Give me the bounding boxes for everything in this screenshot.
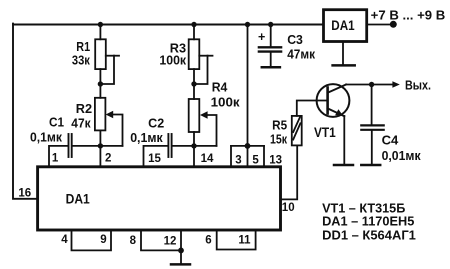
wire: left rail down to pin 16 [13, 24, 37, 199]
wire: loop pins 6-11 [217, 230, 256, 250]
svg-text:4: 4 [61, 234, 68, 246]
wire: R4 bottom lead [193, 132, 195, 146]
svg-text:R1: R1 [76, 40, 90, 54]
ground: VT1 emitter [334, 164, 353, 167]
svg-text:R4: R4 [212, 81, 228, 95]
wire: pin 13 stub [263, 146, 265, 167]
wire: R1 bottom to R2 top [99, 69, 101, 98]
wire: loop pins 4-9 [72, 230, 112, 250]
svg-text:1: 1 [52, 153, 59, 165]
wire: pin 5 stub [247, 146, 249, 167]
wire: R3 bottom to R4 top [193, 69, 195, 99]
svg-text:16: 16 [18, 188, 31, 200]
node: rail junction at R1 [98, 22, 103, 27]
svg-text:15: 15 [148, 153, 161, 165]
ground: C4 [361, 164, 380, 167]
svg-text:DA1: DA1 [331, 18, 355, 33]
wire: pin 3 stub [230, 146, 232, 167]
wire: pin 14 stub [193, 146, 195, 167]
svg-text:100к: 100к [159, 54, 186, 68]
svg-text:15к: 15к [270, 133, 288, 147]
svg-text:9: 9 [100, 234, 106, 246]
node: junction R1/R2 [98, 81, 103, 86]
svg-text:11: 11 [238, 235, 251, 247]
node: output junction C4 [369, 82, 374, 87]
svg-text:0,01мк: 0,01мк [382, 149, 422, 163]
svg-text:DA1 – 1170ЕН5: DA1 – 1170ЕН5 [322, 215, 414, 229]
wire: VT1 collector to output [346, 84, 393, 86]
svg-text:C1: C1 [49, 116, 64, 130]
wire: regulator input to terminal [367, 24, 390, 26]
transistor VT1 [317, 84, 350, 117]
resistor R2 (trimmer) [95, 98, 106, 131]
resistor R5 [292, 116, 302, 145]
wire: pin 12 to ground [180, 250, 182, 263]
wire: pin 1 stub [49, 146, 67, 167]
svg-text:0,1мк: 0,1мк [130, 131, 163, 145]
svg-text:100к: 100к [211, 96, 241, 110]
wire: regulator ground lead [342, 42, 344, 65]
node: rail junction at R3 [191, 22, 196, 27]
node: junction pin 12 ground [178, 248, 184, 254]
svg-text:C4: C4 [382, 134, 399, 148]
svg-text:3: 3 [235, 155, 241, 167]
svg-text:R5: R5 [272, 118, 287, 132]
wire: C1 to node pin 2 [73, 145, 123, 147]
svg-text:0,1мк: 0,1мк [30, 130, 63, 144]
svg-text:33к: 33к [72, 54, 91, 68]
capacitor C3 (electrolytic) [270, 25, 272, 47]
ground: C3 [262, 66, 280, 69]
node: rail junction at C3 [268, 22, 273, 27]
wire: loop pins 8-12 [141, 230, 181, 250]
wire: C2 to node pin 14 [173, 145, 217, 147]
svg-text:47мк: 47мк [287, 47, 315, 61]
capacitor C2 [167, 134, 169, 157]
svg-text:VT1 – КТ315Б: VT1 – КТ315Б [322, 201, 405, 215]
svg-text:+7 В ... +9 В: +7 В ... +9 В [371, 9, 446, 23]
node: pin 2 junction [98, 143, 103, 148]
resistor R1 [95, 39, 106, 69]
svg-text:DD1 – К564АГ1: DD1 – К564АГ1 [322, 228, 416, 242]
svg-text:12: 12 [164, 235, 177, 247]
svg-text:Вых.: Вых. [405, 79, 431, 93]
svg-text:10: 10 [282, 202, 295, 214]
svg-text:C2: C2 [148, 117, 164, 131]
IC DD1: DA1 main box [38, 167, 281, 230]
svg-text:C3: C3 [287, 33, 303, 47]
svg-text:6: 6 [205, 235, 211, 247]
capacitor C1 [68, 134, 70, 157]
voltage regulator U: DA1 box [324, 10, 367, 42]
svg-text:2: 2 [105, 153, 111, 165]
terminal: +7..9V input [390, 21, 397, 28]
svg-text:+: + [258, 30, 265, 44]
resistor R3 [189, 39, 200, 69]
svg-text:DA1: DA1 [66, 192, 91, 207]
svg-text:VT1: VT1 [314, 125, 336, 140]
svg-text:5: 5 [252, 155, 259, 167]
node: junction pins 3/5/13 [245, 143, 251, 149]
ground: pin 12 [171, 263, 190, 266]
wire: R1 tap to bottom [106, 55, 119, 57]
wire: feed from rail to pins 3,5,13 [247, 25, 249, 146]
wire: R3 top lead [193, 25, 195, 40]
wire: +V top rail [13, 24, 324, 26]
wire: R3 tap to bottom [199, 55, 212, 57]
capacitor C4 [371, 85, 373, 125]
svg-text:14: 14 [201, 153, 214, 165]
wire: R5 top to VT1 base [297, 101, 328, 116]
wire: pin 10 to R5 [281, 145, 298, 199]
output arrow Вых. [392, 81, 399, 88]
svg-text:R2: R2 [76, 102, 92, 116]
wire: R1 top lead [99, 25, 101, 40]
wire: pin 2 stub [99, 146, 101, 167]
wire: R2 wiper return [112, 115, 123, 146]
wire: R2 bottom lead [99, 130, 101, 146]
wire: R4 wiper return [206, 115, 217, 146]
svg-text:8: 8 [130, 235, 137, 247]
resistor R4 (trimmer) [189, 99, 200, 132]
svg-text:13: 13 [269, 155, 282, 167]
node: junction R3/R4 [191, 81, 196, 86]
node: rail junction feed 3/5/13 [245, 22, 250, 27]
node: pin 14 junction [191, 143, 196, 148]
wire: pin 15 stub [144, 146, 168, 167]
svg-text:47к: 47к [71, 117, 91, 131]
wire: VT1 emitter to ground [343, 116, 345, 164]
ground: regulator [333, 64, 355, 67]
